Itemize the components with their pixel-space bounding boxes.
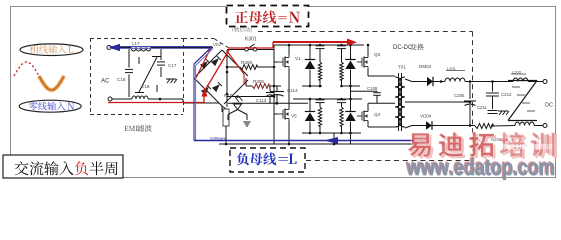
svg-text:Q3: Q3 bbox=[374, 52, 381, 57]
svg-text:N10: N10 bbox=[224, 93, 233, 98]
svg-text:C108: C108 bbox=[367, 86, 378, 91]
svg-text:C17: C17 bbox=[168, 63, 177, 68]
svg-text:T01: T01 bbox=[398, 65, 406, 70]
svg-text:V04: V04 bbox=[213, 42, 221, 47]
svg-text:C18: C18 bbox=[141, 84, 150, 89]
svg-text:Q4: Q4 bbox=[374, 112, 381, 117]
svg-text:V1: V1 bbox=[295, 56, 301, 61]
svg-text:V5: V5 bbox=[291, 114, 297, 119]
svg-text:C205: C205 bbox=[454, 93, 465, 98]
svg-text:L17: L17 bbox=[132, 41, 140, 46]
svg-text:K301: K301 bbox=[245, 37, 257, 43]
svg-text:VD04: VD04 bbox=[420, 114, 432, 119]
svg-text:C113: C113 bbox=[256, 98, 267, 103]
svg-text:C16: C16 bbox=[117, 77, 126, 82]
svg-text:R306: R306 bbox=[253, 79, 264, 84]
svg-text:C211: C211 bbox=[477, 105, 487, 110]
svg-text:R309: R309 bbox=[241, 60, 252, 65]
svg-text:DC-DC: DC-DC bbox=[393, 45, 413, 51]
svg-text:L203: L203 bbox=[512, 70, 522, 75]
svg-text:C212: C212 bbox=[501, 92, 512, 97]
svg-text:AC: AC bbox=[101, 79, 110, 85]
svg-text:DM02: DM02 bbox=[419, 64, 432, 69]
svg-text:L201: L201 bbox=[447, 66, 457, 71]
svg-text:DC: DC bbox=[545, 103, 553, 109]
svg-text:Software: Software bbox=[210, 136, 227, 141]
